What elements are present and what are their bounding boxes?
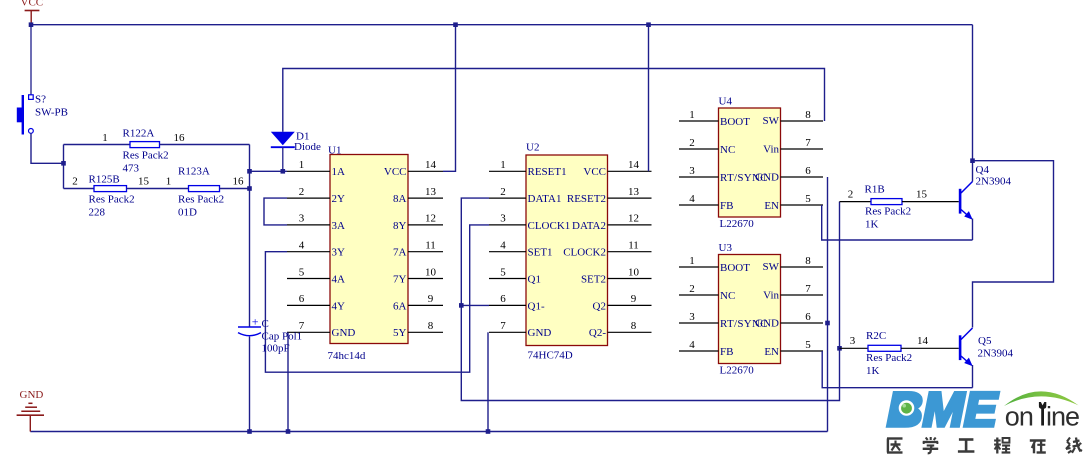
svg-text:1: 1 [166,176,172,188]
svg-text:3: 3 [850,335,856,347]
wire R2C left [840,347,869,349]
svg-text:FB: FB [720,200,733,212]
svg-text:12: 12 [425,213,436,225]
svg-text:R2C: R2C [866,330,886,342]
wire U1 3Y to U2 CLOCK1 [265,225,489,372]
svg-text:Res Pack2: Res Pack2 [178,194,224,206]
svg-text:SW: SW [763,115,780,127]
U4 pin 1 (BOOT) [679,109,750,128]
U3 pin 8 (SW) [763,255,824,273]
svg-text:GND: GND [755,318,779,330]
svg-text:12: 12 [628,213,639,225]
watermark chinese char yi [887,439,903,453]
svg-text:Q5: Q5 [978,335,992,347]
wire resistor network left vertical [63,145,65,189]
IC U3 L22670 body [719,255,781,364]
svg-text:1: 1 [500,159,506,171]
diode D1 [271,132,295,172]
watermark chinese char cheng [994,438,1010,454]
wire resistor network right vertical [249,145,251,327]
svg-text:15: 15 [138,176,150,188]
U2 pin 13 (RESET2) [567,186,652,205]
transistor Q5 2N3904 [959,328,973,366]
svg-text:6A: 6A [393,300,407,312]
svg-text:Res Pack2: Res Pack2 [89,194,135,206]
svg-text:13: 13 [628,186,640,198]
wire R122A row left [64,144,131,146]
junction U1 VCC drop [453,22,458,27]
U1 pin 8 (5Y) [393,320,443,339]
wire VCC top rail [31,24,973,26]
svg-text:01D: 01D [178,207,197,219]
svg-text:Vin: Vin [763,144,779,156]
transistor Q4 2N3904 [959,182,973,220]
wire U1 GND to ground rail [287,332,289,431]
svg-text:3: 3 [500,213,506,225]
junction VCC rail left [29,22,34,27]
svg-text:8: 8 [631,320,637,332]
svg-text:228: 228 [89,207,106,219]
wire switch to resistor network [31,133,64,163]
svg-text:7A: 7A [393,247,407,259]
svg-text:7: 7 [500,320,506,332]
watermark chinese char xian [1066,438,1082,454]
svg-text:4A: 4A [332,273,346,285]
svg-text:5: 5 [500,266,506,278]
svg-text:VCC: VCC [21,0,44,9]
U2 pin 8 (Q2-) [589,320,652,339]
junction resnet right / row2 [247,186,252,191]
junction U2 VCC drop [646,22,651,27]
svg-text:473: 473 [123,163,140,175]
resistor R125B [94,186,127,192]
watermark chinese char xue [923,437,939,453]
U1 pin 13 (8A) [393,186,443,205]
svg-text:U1: U1 [328,145,341,157]
power symbol GND [17,389,44,432]
svg-text:R122A: R122A [123,128,155,140]
U2 pin 7 (GND) [489,320,551,339]
IC U2 74HC74D body [526,155,608,346]
svg-text:1: 1 [299,159,305,171]
U1 pin 6 (4Y) [287,293,345,312]
svg-text:100pF: 100pF [262,343,290,355]
svg-text:U3: U3 [719,242,733,254]
svg-text:14: 14 [628,159,640,171]
wire R125B row left [64,188,95,190]
wire U1 2Y-3A loop [264,198,287,225]
svg-text:4: 4 [689,193,695,205]
svg-text:74hc14d: 74hc14d [328,350,366,362]
svg-text:C: C [262,318,269,330]
svg-text:5: 5 [299,266,305,278]
svg-text:1: 1 [689,255,695,267]
U3 pin 3 (RT/SYNC) [679,311,768,330]
svg-text:R123A: R123A [178,166,210,178]
U4 pin 7 (Vin) [763,137,823,156]
U2 pin 10 (SET2) [581,266,652,285]
power symbol VCC [21,0,44,23]
svg-text:GND: GND [332,327,356,339]
svg-text:+: + [252,315,259,329]
U4 pin 3 (RT/SYNC) [679,165,768,184]
svg-text:R125B: R125B [89,174,120,186]
wire Q4 collector up to VCC drop [972,25,974,182]
svg-text:8: 8 [805,255,811,267]
svg-text:11: 11 [425,240,436,252]
U3 pin 6 (GND) [755,311,823,330]
svg-text:8: 8 [428,320,434,332]
svg-text:10: 10 [425,266,437,278]
U3 pin 4 (FB) [679,339,733,358]
svg-text:GND: GND [528,327,552,339]
svg-text:4: 4 [689,339,695,351]
svg-text:Res Pack2: Res Pack2 [865,206,911,218]
watermark logo online text [1005,402,1079,432]
svg-text:Q2-: Q2- [589,327,606,339]
svg-text:Diode: Diode [294,141,321,153]
svg-text:VCC: VCC [583,166,606,178]
svg-text:16: 16 [174,132,186,144]
wire ground bottom rail [30,431,827,433]
svg-text:8: 8 [805,109,811,121]
U2 pin 9 (Q2) [593,293,652,312]
svg-text:2: 2 [72,176,78,188]
svg-text:9: 9 [428,293,434,305]
U2 pin 1 (RESET1) [489,159,567,178]
svg-text:8Y: 8Y [393,220,407,232]
U3 pin 7 (Vin) [763,283,823,302]
svg-text:SW-PB: SW-PB [35,107,68,119]
svg-text:FB: FB [720,346,733,358]
watermark logo swoosh [1004,391,1079,406]
svg-text:6: 6 [805,311,811,323]
wire R123A row right [220,188,250,190]
U4 pin 4 (FB) [679,193,733,212]
junction diode cathode / pin1 wire [281,169,286,174]
U1 pin 9 (6A) [393,293,443,312]
wire Q5 emitter down [972,365,974,388]
svg-text:2: 2 [848,189,854,201]
U2 pin 5 (Q1) [489,266,541,285]
svg-text:6: 6 [805,165,811,177]
U2 pin 6 (Q1-) [489,293,545,312]
svg-text:8A: 8A [393,193,407,205]
svg-text:4Y: 4Y [332,300,346,312]
svg-text:7Y: 7Y [393,273,407,285]
svg-text:14: 14 [425,159,437,171]
wire between R125B and R123A [127,188,189,190]
svg-text:DATA1: DATA1 [528,193,562,205]
junction DATA1/Q1- [459,303,464,308]
svg-text:ine: ine [1046,402,1079,432]
wire U2 DATA1 / Q1- net to base resistors [461,198,839,400]
svg-text:1K: 1K [865,219,879,231]
svg-text:BOOT: BOOT [720,262,750,274]
U1 pin 5 (4A) [287,266,345,285]
junction U1 GND/rail [286,429,291,434]
U1 pin 14 (VCC) [384,159,443,178]
wire U2 Q1- to DATA1 vertical [461,304,489,306]
U3 pin 1 (BOOT) [679,255,750,274]
svg-text:5: 5 [805,193,811,205]
svg-text:2N3904: 2N3904 [976,176,1012,188]
svg-text:15: 15 [916,189,928,201]
svg-text:RESET2: RESET2 [567,193,606,205]
wire Q4 collector node to right loop [973,161,1054,328]
U4 pin 8 (SW) [763,109,824,127]
U3 pin 5 (EN) [764,339,823,358]
U1 pin 4 (3Y) [287,240,345,259]
U1 pin 7 (GND) [287,320,355,339]
svg-text:2Y: 2Y [332,193,346,205]
svg-text:9: 9 [631,293,637,305]
svg-text:SW: SW [763,261,780,273]
svg-text:16: 16 [233,176,245,188]
U4 pin 5 (EN) [764,193,823,212]
resistor R2C [868,345,901,351]
svg-text:SET2: SET2 [581,273,606,285]
svg-text:1: 1 [102,132,108,144]
svg-text:Q1: Q1 [528,273,541,285]
wire R122A row right [160,144,250,146]
U3 pin 2 (NC) [679,283,735,302]
svg-text:R1B: R1B [865,184,885,196]
svg-text:3: 3 [689,165,695,177]
U1 pin 3 (3A) [287,213,345,232]
svg-text:SET1: SET1 [528,247,553,259]
U2 pin 4 (SET1) [489,240,553,259]
svg-text:GND: GND [20,389,44,401]
svg-text:1K: 1K [866,365,880,377]
U1 pin 1 (1A) [287,159,345,178]
svg-text:2: 2 [689,283,695,295]
svg-text:14: 14 [917,335,929,347]
svg-text:Res Pack2: Res Pack2 [123,150,169,162]
IC U4 L22670 body [719,108,781,217]
junction Q4 collector node [970,158,975,163]
U4 pin 6 (GND) [755,165,823,184]
U2 pin 14 (VCC) [583,159,651,178]
svg-text:74HC74D: 74HC74D [528,350,573,362]
U1 pin 2 (2Y) [287,186,345,205]
U2 pin 11 (CLOCK2) [563,240,651,259]
svg-text:11: 11 [628,240,639,252]
U4 pin 2 (NC) [679,137,735,156]
junction switch wire / resnet left [61,161,66,166]
wire resnet to U1 pin 1 [250,170,288,172]
junction capacitor/rail [247,429,252,434]
resistor R122A [130,142,160,148]
switch S1 SW-PB [17,95,34,135]
wire capacitor bottom to ground rail [249,337,251,432]
U2 pin 12 (DATA2) [572,213,651,232]
U1 pin 11 (7A) [393,240,443,259]
svg-text:2N3904: 2N3904 [978,348,1014,360]
svg-text:U2: U2 [526,142,539,154]
svg-text:7: 7 [805,137,811,149]
watermark chinese char gong [958,440,975,452]
svg-text:1: 1 [689,109,695,121]
junction U3 GND on GND vertical [825,321,830,326]
svg-text:2: 2 [299,186,305,198]
svg-text:L22670: L22670 [720,218,755,230]
svg-text:3A: 3A [332,220,346,232]
svg-text:Cap Pol1: Cap Pol1 [262,331,303,343]
svg-text:CLOCK1: CLOCK1 [528,220,571,232]
svg-text:Q1-: Q1- [528,300,545,312]
wire U2 VCC pin14 to top rail [648,25,650,172]
U1 pin 10 (7Y) [393,266,443,285]
svg-text:BOOT: BOOT [720,116,750,128]
IC U1 74hc14d body [330,155,408,344]
wire U4 GND down to ground rail [827,177,829,432]
svg-text:5Y: 5Y [393,327,407,339]
wire R2C to Q5 base [901,347,959,349]
watermark logo wrench (letter l) [1039,402,1046,426]
svg-text:CLOCK2: CLOCK2 [563,247,606,259]
U2 pin 2 (DATA1) [489,186,561,205]
svg-text:Res Pack2: Res Pack2 [866,352,912,364]
svg-text:EN: EN [764,200,779,212]
svg-text:2: 2 [689,137,695,149]
junction resnet right / U1 pin1 row [247,169,252,174]
svg-text:U4: U4 [719,96,733,108]
svg-text:3: 3 [689,311,695,323]
svg-text:RESET1: RESET1 [528,166,567,178]
svg-text:Vin: Vin [763,290,779,302]
capacitor C Cap Pol1 [238,315,261,336]
wire Q4 emitter down [972,219,974,241]
svg-text:DATA2: DATA2 [572,220,606,232]
wire R1B to Q4 base [902,201,959,203]
svg-text:on: on [1005,402,1033,432]
svg-text:4: 4 [500,240,506,252]
svg-text:L22670: L22670 [720,365,755,377]
resistor R1B [871,199,902,205]
svg-text:3: 3 [299,213,305,225]
svg-text:3Y: 3Y [332,247,346,259]
wire R1B pin2 vertical to EN net [839,202,841,349]
svg-text:1A: 1A [332,166,346,178]
wire R1B left [840,201,872,203]
wire U1 VCC pin14 to top rail [443,25,456,172]
U1 pin 12 (8Y) [393,213,443,232]
watermark chinese char zai [1030,441,1046,454]
svg-text:EN: EN [764,346,779,358]
svg-text:4: 4 [299,240,305,252]
svg-text:S?: S? [35,94,46,106]
svg-text:Q2: Q2 [593,300,606,312]
U2 pin 3 (CLOCK1) [489,213,570,232]
junction R1B/R2C/Q1- net [837,346,842,351]
wire diode anode to U4 SW pin [283,69,825,132]
svg-text:13: 13 [425,186,437,198]
wire VCC rail to switch [30,25,32,95]
resistor R123A [189,186,220,192]
watermark logo BME [887,384,999,437]
svg-text:2: 2 [500,186,506,198]
svg-text:GND: GND [755,172,779,184]
wire U2 GND to ground rail [487,332,489,431]
svg-text:NC: NC [720,290,735,302]
svg-text:6: 6 [299,293,305,305]
svg-text:5: 5 [805,339,811,351]
svg-text:10: 10 [628,266,640,278]
svg-text:Q4: Q4 [976,164,990,176]
svg-text:VCC: VCC [384,166,407,178]
svg-text:6: 6 [500,293,506,305]
svg-text:7: 7 [805,283,811,295]
wire U4 EN to Q4 emitter [822,205,973,240]
junction U2 GND/rail [486,429,491,434]
wire U3 EN to Q5 emitter [822,351,972,388]
svg-text:NC: NC [720,144,735,156]
